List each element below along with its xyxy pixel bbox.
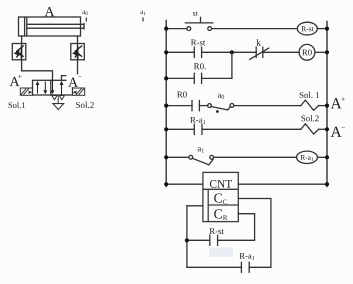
wire V2 to valve port <box>62 60 78 81</box>
rung5 wire to rail <box>318 156 328 158</box>
counter CNT text <box>210 180 232 188</box>
valve U1 right box arrows <box>51 80 64 95</box>
contact R-st bottom bars <box>209 235 211 245</box>
wire cylinder right port to valve V2 <box>77 36 79 44</box>
valve U1 divider <box>50 80 52 95</box>
contact R-a1 bars <box>193 124 195 134</box>
counter CNT box <box>203 172 238 221</box>
counter CNT divider1 <box>203 188 238 190</box>
branch vertical wire <box>231 52 233 78</box>
solenoid Sol.1 box <box>20 88 32 95</box>
rung2 wire to rail <box>315 51 327 53</box>
junction dot rung4 right <box>325 127 329 131</box>
label a1 <box>198 147 204 152</box>
rung2 wire right <box>263 51 299 53</box>
contact k slash <box>250 48 269 59</box>
label a0 <box>218 94 224 99</box>
counter CC text <box>214 193 227 204</box>
flow control valve V2 box <box>71 44 85 60</box>
junction dot rung3 left <box>164 104 168 108</box>
limit switch a0 circle left <box>208 104 212 108</box>
flow control valve V1 symbol <box>14 46 24 59</box>
rung1 wire right <box>212 28 298 30</box>
branch wire left <box>166 77 194 79</box>
scan highlight artifact <box>209 248 233 258</box>
coil R-st text <box>301 26 313 31</box>
pushbutton st bridge <box>185 22 213 24</box>
label R-st rung2 <box>191 40 205 46</box>
junction dot rung6 left <box>164 182 168 186</box>
flow control valve V2 through line <box>77 44 79 60</box>
limit switch a1 circle left <box>189 155 193 159</box>
wire CC right stub <box>238 199 271 268</box>
cylinder A rod <box>27 23 84 25</box>
limit switch a0 circle right <box>230 104 234 108</box>
valve U1 supply line <box>57 95 59 104</box>
coil R0 text <box>302 50 312 56</box>
label st <box>193 11 198 15</box>
junction dot rung1 left <box>164 27 168 31</box>
cylinder A piston <box>24 18 26 36</box>
limit switch a0 riser <box>228 107 231 110</box>
limit switch a1 circle right <box>210 155 214 159</box>
pushbutton st circle right <box>208 27 212 31</box>
pushbutton st circle left <box>187 27 191 31</box>
valve U1 exhaust triangle right <box>59 96 64 100</box>
label R-st bottom <box>210 228 224 234</box>
flow control valve V1 through line <box>21 44 23 60</box>
marker a0 label <box>82 11 87 15</box>
counter CNT inner column <box>207 189 209 221</box>
junction dot rung1 right <box>325 27 329 31</box>
label Sol.2 <box>76 102 94 108</box>
valve U1 left box arrows <box>36 81 48 94</box>
junction dot rung4 left <box>164 127 168 131</box>
junction dot rung5 left <box>164 155 168 159</box>
junction dot rung2 right <box>325 50 329 54</box>
rung1 wire to rail <box>317 28 327 30</box>
marker a1 label <box>140 11 145 15</box>
limit switch a1 return <box>209 160 213 165</box>
contact k bars <box>255 47 257 57</box>
junction dot rung5 right <box>325 155 329 159</box>
solenoid Sol.2 box <box>73 88 85 95</box>
wire left vertical <box>186 206 188 267</box>
label A+ left <box>10 77 20 86</box>
rung2 wire middle <box>202 51 257 53</box>
label R0 hold <box>194 63 206 69</box>
wire CR right stub <box>218 214 255 241</box>
rung3 wire middle <box>199 105 207 107</box>
label A- rung4 <box>331 127 342 137</box>
cylinder A body <box>19 17 81 36</box>
flow control valve V2 symbol <box>72 46 82 59</box>
junction dot rung3 right <box>325 104 329 108</box>
rung4 wire left <box>166 128 194 130</box>
ladder left rail <box>165 20 167 188</box>
rung4 wire to rail <box>319 128 327 130</box>
label Sol.1 <box>9 102 25 108</box>
junction dot branch left <box>164 76 168 80</box>
junction dot rung2 branch <box>230 50 234 54</box>
rung2 wire left <box>166 51 194 53</box>
counter CNT divider2 <box>208 204 238 206</box>
label R0 rung3 <box>177 92 187 98</box>
pushbutton st stem <box>200 17 202 23</box>
wire V1 to valve port <box>22 60 53 81</box>
branch wire right <box>202 77 232 79</box>
contact R-a1 bottom bars <box>240 262 242 272</box>
rung6 wire left <box>166 183 203 185</box>
marker a0 tick <box>85 18 87 22</box>
rung3 wire right <box>234 105 301 107</box>
rung1 wire left <box>166 28 187 30</box>
rung6 wire right <box>238 183 327 185</box>
rung3 wire to rail <box>319 105 327 107</box>
counter CR text <box>214 209 227 220</box>
marker a1 tick <box>142 18 144 22</box>
wire R-st rung left <box>187 239 210 241</box>
rung4 wire right <box>202 128 301 130</box>
flow control valve V1 box <box>12 44 25 60</box>
valve U1 exhaust triangle left <box>52 96 57 100</box>
limit switch a0 lever <box>211 107 228 110</box>
wire cylinder left port to valve V1 <box>21 36 23 44</box>
junction dot rung6 right <box>325 182 329 186</box>
solenoid Sol.2 zigzag <box>301 124 319 134</box>
contact R-st bars <box>193 47 195 57</box>
limit switch a1 lever <box>192 158 208 165</box>
coil R-a1 ellipse <box>297 151 318 163</box>
label A+ rung3 <box>331 98 342 108</box>
rung5 wire left <box>166 156 189 158</box>
wire left stub to CNT <box>187 205 203 207</box>
label Sol. 1 <box>300 92 319 98</box>
coil R-a1 text <box>301 155 314 161</box>
wire R-a1 rung left <box>187 266 242 268</box>
junction dot rung2 left <box>164 50 168 54</box>
limit switch a0 roller <box>216 110 219 113</box>
contact R0 hold bars <box>193 73 195 83</box>
label R-a1 bottom <box>240 253 255 260</box>
solenoid Sol.1 zigzag <box>301 100 319 110</box>
coil R0 circle <box>299 44 315 60</box>
rung5 wire right <box>214 156 297 158</box>
contact R0 bars <box>191 101 193 111</box>
rung3 wire left <box>166 105 192 107</box>
label Sol.2 <box>301 115 318 121</box>
coil R-st ellipse <box>297 22 317 35</box>
junction dot bottom left <box>185 238 189 242</box>
cylinder label A <box>45 7 55 16</box>
ladder right rail <box>326 21 328 188</box>
label A- right <box>67 75 84 88</box>
label R-a1 rung4 <box>190 117 205 124</box>
label k <box>256 39 261 46</box>
valve U1 supply triangle <box>53 104 64 110</box>
valve U1 5/2 body <box>33 80 73 95</box>
